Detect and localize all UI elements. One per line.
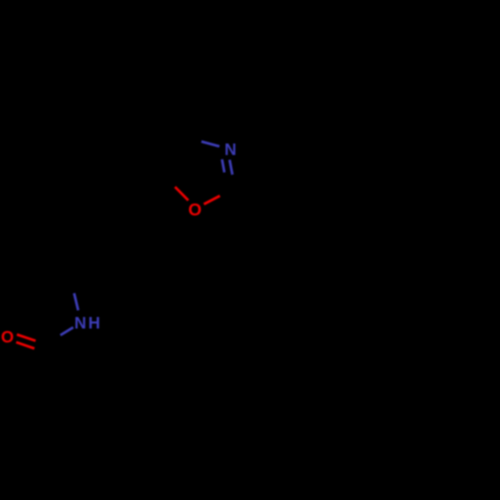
wire double bond C=O lower line (red half) <box>16 342 34 348</box>
wire double bond C=O upper line (red half) <box>17 335 36 341</box>
wire double bond N3=C2 inner line (blue half) <box>222 159 224 172</box>
wire bond amide N to carbonyl C (blue half) <box>60 327 73 335</box>
wire bond ring C to amide N (blue half) <box>74 293 78 310</box>
wire bond O1-C2 (red half) <box>204 196 220 204</box>
svg-text:N: N <box>74 314 86 332</box>
svg-text:O: O <box>1 329 14 347</box>
wire bond C4-N3 (blue half) <box>201 142 219 147</box>
svg-text:H: H <box>88 314 100 332</box>
svg-text:N: N <box>225 141 237 159</box>
wire double bond N3=C2 outer line (blue half) <box>230 160 233 175</box>
svg-text:O: O <box>188 199 201 219</box>
wire bond C5-O1 (red half) <box>175 187 188 201</box>
